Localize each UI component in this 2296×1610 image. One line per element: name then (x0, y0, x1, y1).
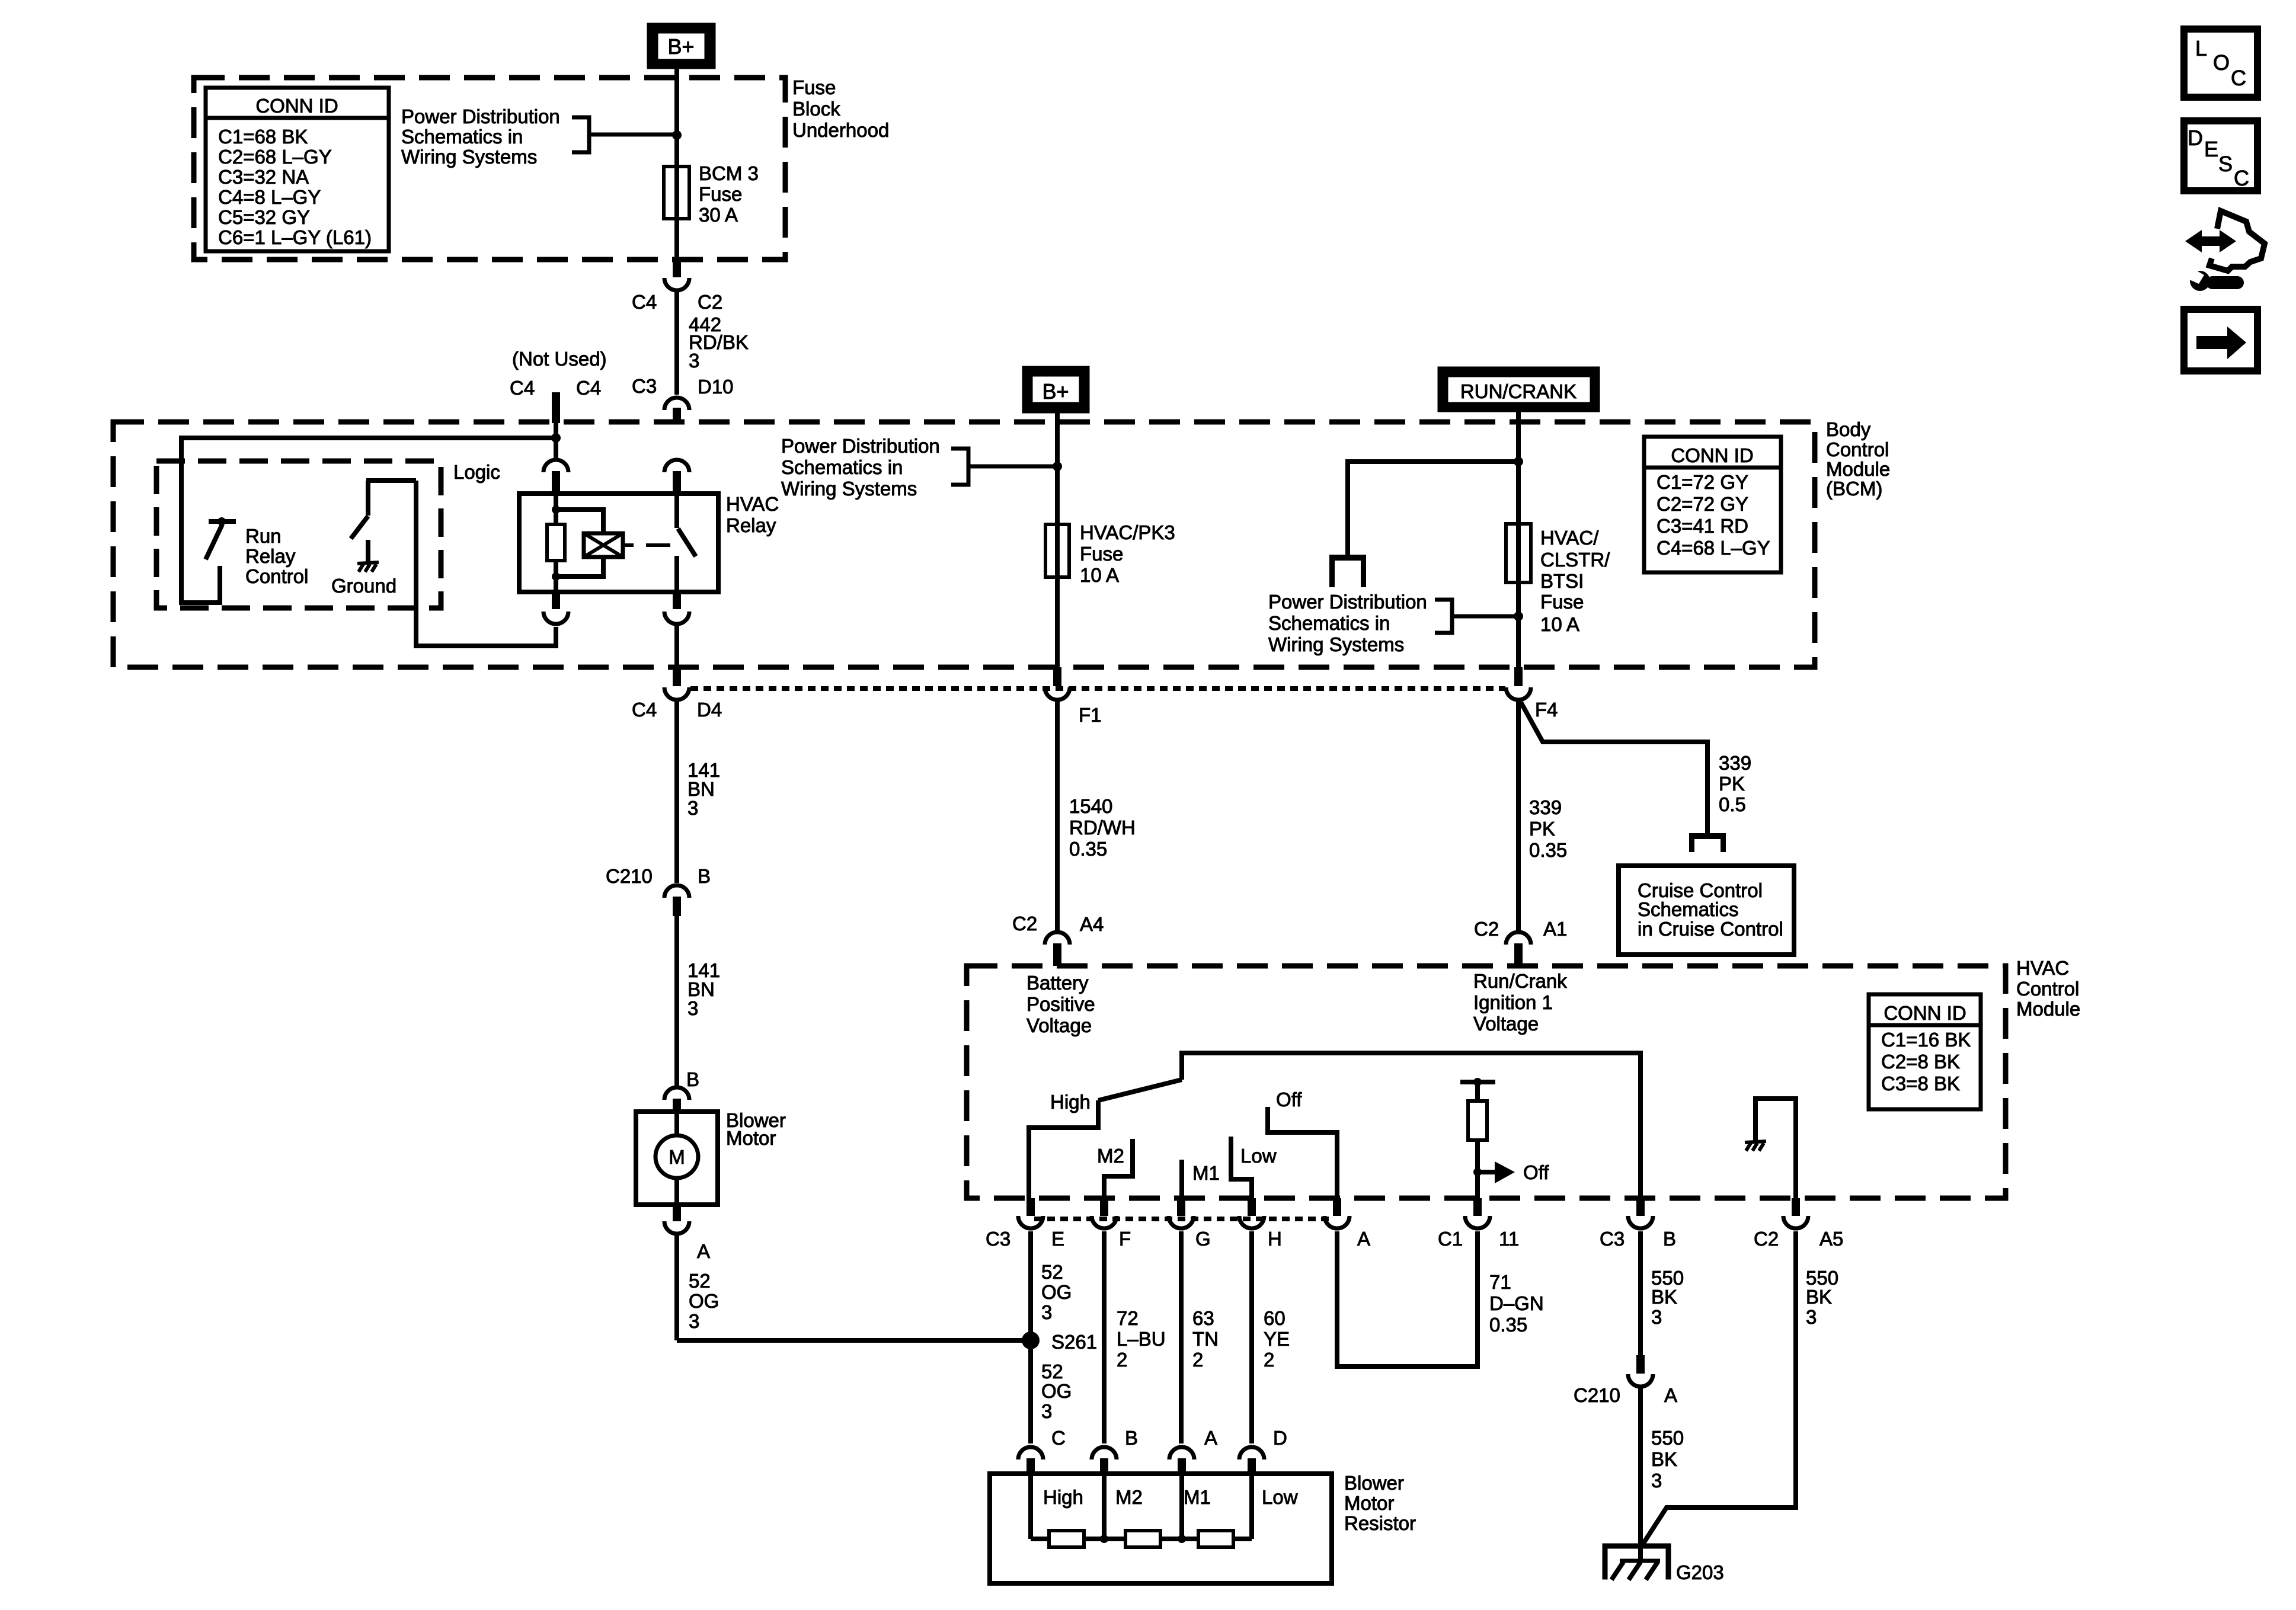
connector pin F (HVAC module) (1092, 1198, 1131, 1250)
svg-text:(BCM): (BCM) (1826, 478, 1882, 500)
wire: not-used C4 into relay coil (554, 423, 558, 460)
CONN ID table (BCM) (1644, 437, 1781, 572)
pin labels C4 D4 (632, 699, 722, 721)
pin label F4 (1535, 699, 1558, 721)
pin labels C210 A (1574, 1384, 1677, 1406)
svg-text:3: 3 (1651, 1470, 1662, 1491)
svg-text:F1: F1 (1079, 704, 1102, 726)
svg-text:Fuse: Fuse (1540, 591, 1584, 613)
svg-text:Wiring Systems: Wiring Systems (401, 146, 537, 168)
svg-text:2: 2 (1117, 1349, 1127, 1371)
svg-text:RD/WH: RD/WH (1069, 817, 1136, 838)
wire: B+ to BCM3 fuse (674, 69, 679, 260)
power symbol B+ (BCM) (1022, 366, 1089, 413)
connector D4 pin (664, 667, 689, 700)
connector pin G (HVAC module) (1169, 1198, 1211, 1250)
ground label (331, 575, 396, 597)
svg-text:Ignition 1: Ignition 1 (1473, 991, 1553, 1013)
svg-text:HVAC/PK3: HVAC/PK3 (1080, 521, 1175, 543)
wire label 550 BK 3 (1806, 1267, 1838, 1328)
svg-text:Positive: Positive (1027, 993, 1095, 1015)
junction node (551, 433, 561, 443)
svg-text:C2: C2 (1012, 913, 1037, 934)
svg-text:C210: C210 (606, 865, 653, 887)
svg-text:YE: YE (1264, 1328, 1290, 1350)
svg-text:B: B (1125, 1427, 1138, 1449)
svg-text:CONN ID: CONN ID (255, 95, 338, 117)
wire 1540 RD/WH 0.35 (1055, 702, 1060, 932)
high label (1050, 1091, 1091, 1113)
relay switch pin (top) (664, 460, 689, 494)
cruise control schematics box (1619, 866, 1794, 955)
svg-text:Control: Control (245, 565, 308, 587)
svg-text:Power Distribution: Power Distribution (1268, 591, 1427, 613)
connector dotted line (HVAC C3) (1034, 1217, 1334, 1221)
svg-text:Motor: Motor (1344, 1492, 1394, 1514)
logic dashed box (156, 461, 441, 608)
svg-text:3: 3 (1806, 1306, 1817, 1328)
svg-text:Block: Block (792, 98, 840, 120)
module internal ground (1745, 1099, 1796, 1198)
connector pin D (resistor) (1239, 1427, 1287, 1474)
power symbol B+ (fuse block) (647, 23, 715, 69)
svg-text:Body: Body (1826, 418, 1871, 440)
wire 339 PK 0.35 (1516, 702, 1521, 932)
blower motor M (655, 1112, 698, 1205)
svg-text:0.35: 0.35 (1489, 1314, 1527, 1336)
svg-text:Wiring Systems: Wiring Systems (1268, 633, 1404, 655)
svg-text:A5: A5 (1819, 1228, 1843, 1250)
svg-text:RUN/CRANK: RUN/CRANK (1460, 380, 1576, 402)
svg-text:Module: Module (1826, 458, 1890, 480)
svg-text:C4: C4 (632, 699, 657, 721)
svg-text:D: D (1273, 1427, 1287, 1449)
svg-text:E: E (1051, 1228, 1064, 1250)
svg-text:C4: C4 (576, 377, 601, 399)
fuse HVAC/PK3 10A (1045, 524, 1069, 577)
wire label 550 BK 3 (1651, 1427, 1684, 1491)
junction node (1514, 457, 1523, 466)
svg-text:2: 2 (1264, 1349, 1274, 1371)
svg-text:C3=32 NA: C3=32 NA (218, 166, 309, 188)
fuse block underhood dashed box (194, 78, 785, 260)
svg-text:Voltage: Voltage (1473, 1013, 1539, 1035)
svg-text:Low: Low (1262, 1486, 1298, 1508)
wire label 339 PK 0.35 (1529, 796, 1567, 861)
svg-text:1540: 1540 (1069, 795, 1112, 817)
wire label 60 YE 2 (1264, 1307, 1290, 1371)
svg-text:30 A: 30 A (699, 204, 738, 226)
svg-text:Run: Run (245, 525, 282, 547)
blower motor box (636, 1112, 718, 1205)
svg-text:339: 339 (1719, 752, 1751, 774)
relay switch pin (bottom) (664, 592, 689, 624)
svg-text:71: 71 (1489, 1271, 1511, 1293)
svg-text:C3: C3 (1600, 1228, 1625, 1250)
svg-text:3: 3 (689, 1310, 699, 1332)
wire: run relay control loop (181, 438, 556, 603)
battery positive voltage label (1027, 972, 1095, 1036)
wire 63 TN 2 (1179, 1231, 1184, 1443)
ground switch (351, 481, 416, 539)
svg-text:C4: C4 (632, 291, 657, 313)
svg-text:PK: PK (1529, 818, 1555, 840)
wire 141 BN 3 (lower) (674, 916, 679, 1086)
wire 60 YE 2 (1249, 1231, 1254, 1443)
svg-text:HVAC: HVAC (2016, 957, 2069, 979)
connector F1 pin (1045, 667, 1070, 700)
run relay control label (245, 525, 308, 587)
wire label 52 OG 3 (689, 1270, 719, 1332)
connector F4 pin (1506, 667, 1531, 700)
svg-text:Off: Off (1276, 1089, 1302, 1110)
svg-text:HVAC/: HVAC/ (1540, 527, 1599, 549)
svg-text:M: M (669, 1146, 685, 1168)
CONN ID table (HVAC) (1869, 994, 1981, 1109)
svg-text:0.5: 0.5 (1719, 793, 1746, 815)
wire to splice S261 (677, 1338, 1031, 1343)
svg-text:3: 3 (687, 997, 698, 1019)
wire 141 BN 3 (upper) (674, 702, 679, 883)
svg-text:A1: A1 (1543, 918, 1567, 940)
M1 position wire (1182, 1160, 1220, 1198)
relay coil resistor (547, 494, 565, 592)
blower motor pin A (664, 1205, 710, 1262)
forward/back wrench icon (2184, 211, 2265, 291)
svg-text:Control: Control (1826, 438, 1889, 460)
off arrow (1478, 1161, 1549, 1183)
svg-text:E: E (2204, 137, 2218, 161)
svg-text:Off: Off (1523, 1161, 1549, 1183)
svg-text:B: B (686, 1068, 699, 1090)
resistor junction nodes (1100, 1535, 1186, 1543)
wire label 141 BN 3 (687, 759, 720, 819)
blower motor label (726, 1109, 786, 1149)
svg-text:B+: B+ (667, 34, 694, 59)
blower switch common wire (1182, 1053, 1641, 1198)
svg-text:11: 11 (1499, 1228, 1519, 1250)
body control module dashed box (113, 422, 1815, 667)
svg-text:OG: OG (1041, 1380, 1072, 1402)
junction node (1053, 462, 1062, 471)
svg-text:PK: PK (1719, 773, 1745, 795)
svg-text:in Cruise Control: in Cruise Control (1638, 918, 1783, 940)
svg-text:52: 52 (689, 1270, 711, 1292)
svg-text:Wiring Systems: Wiring Systems (781, 478, 917, 500)
fuse BCM 3 label (699, 162, 759, 226)
svg-text:Ground: Ground (331, 575, 396, 597)
svg-text:0.35: 0.35 (1069, 838, 1107, 860)
wire label 63 TN 2 (1192, 1307, 1219, 1371)
relay coil pin (top) (543, 460, 568, 494)
svg-text:BK: BK (1806, 1286, 1832, 1308)
pin labels C2 A1 (1474, 918, 1567, 940)
wire label 550 BK 3 (1651, 1267, 1684, 1328)
logic label (453, 461, 500, 483)
svg-text:Low: Low (1240, 1145, 1277, 1167)
connector C210/B (664, 885, 689, 916)
wire 72 L-BU 2 (1102, 1231, 1107, 1443)
svg-text:C3: C3 (986, 1228, 1011, 1250)
svg-text:C2=72 GY: C2=72 GY (1657, 493, 1748, 515)
connector pin B (resistor) (1092, 1427, 1138, 1474)
svg-text:CLSTR/: CLSTR/ (1540, 549, 1610, 571)
svg-text:C: C (2234, 166, 2249, 190)
svg-text:3: 3 (1041, 1301, 1052, 1323)
connector C3/D10 pin (664, 398, 689, 422)
svg-text:D: D (2188, 126, 2203, 150)
connector pin A (HVAC module) (1325, 1198, 1370, 1250)
svg-text:S261: S261 (1051, 1331, 1097, 1353)
svg-text:C3=41 RD: C3=41 RD (1657, 515, 1748, 537)
arrow icon (2184, 309, 2257, 371)
wire: B+ to HVAC/PK3 fuse (1055, 413, 1060, 667)
svg-text:D10: D10 (698, 376, 734, 398)
svg-text:C1=68 BK: C1=68 BK (218, 126, 308, 148)
svg-text:BK: BK (1651, 1448, 1677, 1470)
pin labels C2 A4 (1012, 913, 1104, 935)
continuation bracket (1689, 833, 1726, 852)
resistor terminal labels (1043, 1486, 1298, 1508)
connector C210/A (1628, 1355, 1653, 1387)
svg-text:3: 3 (1041, 1400, 1052, 1422)
svg-text:Fuse: Fuse (792, 76, 836, 98)
svg-text:Power Distribution: Power Distribution (401, 105, 560, 127)
run relay control switch (206, 517, 236, 559)
fuse BCM 3 30A (664, 167, 689, 219)
svg-text:TN: TN (1192, 1328, 1219, 1350)
relay coil pin (bottom) (543, 592, 568, 624)
connector pin C (resistor) (1018, 1427, 1066, 1474)
svg-text:C3: C3 (632, 375, 657, 397)
low position wire (1231, 1137, 1277, 1198)
svg-text:D–GN: D–GN (1489, 1292, 1544, 1314)
svg-text:C1=72 GY: C1=72 GY (1657, 471, 1748, 493)
bracket symbol (1435, 600, 1517, 633)
wire label 72 L-BU 2 (1117, 1307, 1166, 1371)
svg-text:C2: C2 (1754, 1228, 1779, 1250)
svg-text:High: High (1043, 1486, 1083, 1508)
svg-text:C2: C2 (1474, 918, 1499, 940)
ground G203 (1603, 1544, 1671, 1580)
svg-text:C1: C1 (1438, 1228, 1463, 1250)
resistor internal wires (1031, 1474, 1252, 1539)
bracket symbol (951, 449, 1056, 485)
svg-text:A: A (1204, 1427, 1217, 1449)
wire 52 OG 3 (pin E) (1028, 1231, 1033, 1443)
svg-text:Fuse: Fuse (1080, 543, 1123, 565)
svg-text:M2: M2 (1115, 1486, 1143, 1508)
CONN ID table (fuse block) (206, 88, 389, 251)
pin labels C210 B (606, 865, 711, 887)
svg-text:F: F (1119, 1228, 1131, 1250)
wire 71 D-GN 0.35 loop (1337, 1231, 1478, 1366)
connector pin H (HVAC module) (1239, 1198, 1282, 1250)
wire 442 RD/BK 3 (674, 292, 679, 395)
svg-text:Power Distribution: Power Distribution (781, 435, 940, 457)
blower switch high contact arm (1098, 1080, 1182, 1100)
svg-text:BCM 3: BCM 3 (699, 162, 759, 184)
svg-text:(Not Used): (Not Used) (512, 348, 607, 370)
svg-text:G203: G203 (1676, 1561, 1724, 1583)
svg-text:C: C (1051, 1427, 1066, 1449)
wire branch to power distribution (1348, 462, 1518, 556)
svg-text:F4: F4 (1535, 699, 1558, 721)
connector pin B (HVAC module) (1600, 1198, 1676, 1250)
resistor element 3 (1198, 1531, 1233, 1547)
svg-text:Blower: Blower (1344, 1472, 1404, 1494)
off position wire (1268, 1089, 1337, 1198)
svg-text:C: C (2231, 66, 2246, 90)
off sense resistor (1460, 1078, 1495, 1198)
svg-text:Module: Module (2016, 998, 2080, 1020)
svg-text:Underhood: Underhood (792, 119, 889, 141)
svg-text:C4: C4 (510, 377, 535, 399)
svg-text:Schematics in: Schematics in (401, 126, 523, 148)
BCM label (1826, 418, 1890, 500)
svg-text:C2=8 BK: C2=8 BK (1881, 1051, 1960, 1073)
svg-text:L: L (2195, 36, 2207, 60)
svg-text:Schematics: Schematics (1638, 898, 1739, 920)
svg-text:Relay: Relay (726, 514, 776, 536)
svg-text:CONN ID: CONN ID (1884, 1002, 1966, 1024)
wire label 141 BN 3 (687, 959, 720, 1019)
svg-text:OG: OG (689, 1290, 719, 1312)
svg-text:Run/Crank: Run/Crank (1473, 970, 1567, 992)
svg-text:Control: Control (2016, 978, 2079, 1000)
svg-text:B: B (1663, 1228, 1676, 1250)
wire 339 PK 0.5 branch (1521, 702, 1707, 833)
svg-text:3: 3 (1651, 1306, 1662, 1328)
svg-text:O: O (2213, 50, 2230, 75)
svg-text:B: B (698, 865, 711, 887)
connector pin 11 (HVAC module) (1438, 1198, 1519, 1250)
wire 550 BK 3 (pin B) (1638, 1231, 1643, 1357)
svg-text:C3=8 BK: C3=8 BK (1881, 1073, 1960, 1094)
svg-text:A: A (1357, 1228, 1370, 1250)
high position wire (1029, 1100, 1098, 1198)
svg-text:M1: M1 (1192, 1162, 1220, 1184)
pin labels C4 C2 (632, 291, 722, 313)
svg-text:Schematics in: Schematics in (1268, 612, 1390, 634)
wire label 52 OG 3 (below S261) (1041, 1361, 1072, 1422)
svg-text:C2=68 L–GY: C2=68 L–GY (218, 146, 332, 168)
connector C2/A4 pin (1045, 932, 1070, 966)
splice S261 (1022, 1331, 1097, 1353)
ground label G203 (1676, 1561, 1724, 1583)
svg-text:339: 339 (1529, 796, 1562, 818)
svg-text:Fuse: Fuse (699, 183, 742, 205)
svg-text:C4=68 L–GY: C4=68 L–GY (1657, 537, 1770, 559)
svg-text:S: S (2218, 152, 2233, 176)
wire label 52 OG 3 (1041, 1261, 1072, 1323)
junction node (672, 130, 682, 140)
svg-text:C6=1 L–GY (L61): C6=1 L–GY (L61) (218, 226, 372, 248)
wire 52 OG 3 (from blower) (674, 1235, 679, 1340)
svg-text:L–BU: L–BU (1117, 1328, 1166, 1350)
svg-text:C2: C2 (698, 291, 722, 313)
svg-text:52: 52 (1041, 1261, 1063, 1283)
svg-text:3: 3 (689, 350, 699, 372)
svg-text:72: 72 (1117, 1307, 1139, 1329)
fuse block label (792, 76, 889, 141)
M2 position wire (1097, 1139, 1133, 1198)
wire label 339 PK 0.5 (1719, 752, 1751, 815)
connector pin E (HVAC module) (986, 1198, 1064, 1250)
connector pin A5 (HVAC module) (1754, 1198, 1843, 1250)
svg-text:M2: M2 (1097, 1145, 1124, 1167)
pin labels C3 D10 (632, 375, 734, 398)
svg-text:CONN ID: CONN ID (1671, 444, 1753, 466)
relay actuator dashed link (623, 543, 670, 547)
svg-text:3: 3 (687, 797, 698, 819)
svg-text:Voltage: Voltage (1027, 1014, 1092, 1036)
(Not Used) C4 stub (510, 348, 607, 423)
LOC icon (2184, 29, 2257, 97)
svg-text:H: H (1268, 1228, 1282, 1250)
wire 550 BK 3 to G203 (1638, 1388, 1643, 1548)
fuse HVAC/CLSTR/BTSI label (1540, 527, 1610, 635)
svg-text:52: 52 (1041, 1361, 1063, 1382)
fuse HVAC/PK3 label (1080, 521, 1175, 586)
svg-text:D4: D4 (697, 699, 722, 721)
resistor element 2 (1125, 1531, 1160, 1547)
svg-text:A: A (1664, 1384, 1677, 1406)
svg-text:Motor: Motor (726, 1127, 776, 1149)
svg-text:A: A (697, 1240, 710, 1262)
wire 550 BK 3 (pin A5) (1641, 1231, 1796, 1548)
connector C2/A1 pin (1506, 932, 1531, 966)
connector pin A (resistor) (1169, 1427, 1217, 1474)
HVAC relay box (519, 494, 718, 592)
pin label F1 (1079, 704, 1102, 726)
svg-text:B+: B+ (1042, 379, 1069, 404)
svg-text:550: 550 (1651, 1427, 1684, 1449)
relay switch contacts (677, 494, 696, 592)
note: power distribution schematics (BCM B+) (781, 435, 940, 500)
run/crank ignition 1 voltage label (1473, 970, 1567, 1035)
svg-text:M1: M1 (1184, 1486, 1211, 1508)
junction node (1514, 612, 1523, 621)
wire: ground switch to relay coil (416, 481, 556, 646)
svg-text:BK: BK (1651, 1286, 1677, 1308)
svg-text:2: 2 (1192, 1349, 1203, 1371)
fuse HVAC/CLSTR/BTSI 10A (1506, 524, 1531, 582)
blower motor resistor label (1344, 1472, 1416, 1534)
HVAC control module label (2016, 957, 2080, 1020)
svg-text:Logic: Logic (453, 461, 500, 483)
svg-text:60: 60 (1264, 1307, 1285, 1329)
continuation bracket (1329, 555, 1366, 587)
svg-text:A4: A4 (1080, 913, 1104, 935)
wire to F1 (1056, 577, 1060, 667)
svg-text:C4=8 L–GY: C4=8 L–GY (218, 186, 321, 208)
svg-text:Battery: Battery (1027, 972, 1089, 994)
svg-text:G: G (1195, 1228, 1211, 1250)
svg-text:0.35: 0.35 (1529, 839, 1567, 861)
svg-text:C5=32 GY: C5=32 GY (218, 206, 310, 228)
note: power distribution schematics in wiring systems (top) (401, 105, 560, 168)
resistor element 1 (1049, 1531, 1084, 1547)
bracket symbol to wire (572, 117, 677, 152)
wire: RUN/CRANK to HVAC/CLSTR/BTSI fuse (1516, 412, 1521, 667)
svg-text:10 A: 10 A (1080, 564, 1119, 586)
svg-text:OG: OG (1041, 1281, 1072, 1303)
blower motor pin B (664, 1068, 699, 1112)
connector C4/C2 pin (664, 260, 689, 290)
wire label 71 D-GN 0.35 (1489, 1271, 1544, 1336)
svg-text:Resistor: Resistor (1344, 1512, 1416, 1534)
